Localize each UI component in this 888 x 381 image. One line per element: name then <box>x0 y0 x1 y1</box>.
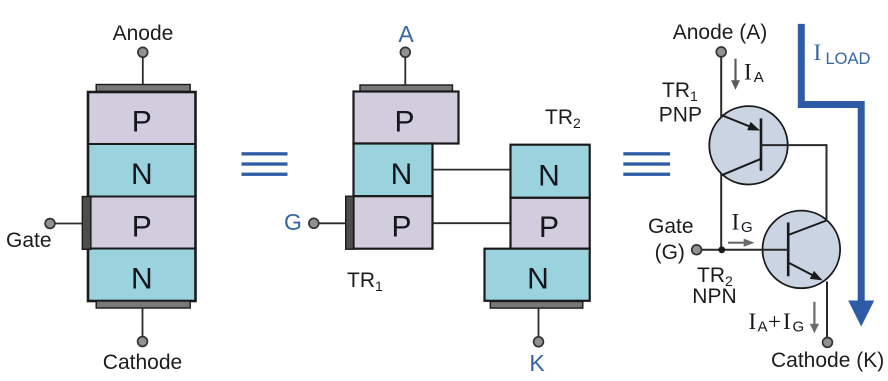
svg-text:N: N <box>131 263 153 296</box>
TR1 P region (emitter) <box>354 92 459 144</box>
current arrow IG head <box>744 239 755 247</box>
load current line ILOAD <box>801 24 861 303</box>
svg-text:K: K <box>529 350 545 376</box>
TR1 P region (collector/gate) <box>354 196 433 249</box>
svg-text:Cathode (K): Cathode (K) <box>771 349 884 372</box>
N region (cathode) <box>88 249 196 302</box>
junction gate node <box>718 246 725 253</box>
outer border of stack <box>88 92 196 301</box>
svg-text:Gate: Gate <box>6 229 52 252</box>
svg-text:P: P <box>539 211 559 244</box>
TR2 P region (base) <box>511 198 590 249</box>
cathode contact bar TR2 <box>490 302 583 309</box>
current arrow IA head <box>731 80 740 89</box>
gate contact bar <box>82 197 91 250</box>
N region <box>88 144 196 197</box>
svg-text:G: G <box>284 209 302 235</box>
svg-text:Cathode: Cathode <box>103 351 182 374</box>
wire anode to TR1 emitter <box>720 57 722 117</box>
TR1 base bar <box>760 118 763 170</box>
svg-text:Gate: Gate <box>648 215 694 238</box>
TR1 N region (base) <box>354 144 433 197</box>
svg-text:P: P <box>394 106 414 139</box>
TR2 base bar <box>787 223 790 277</box>
load current arrowhead <box>848 301 874 327</box>
svg-text:G: G <box>793 318 805 335</box>
svg-text:I: I <box>744 60 752 85</box>
P region (gate) <box>88 197 196 249</box>
svg-text:NPN: NPN <box>692 285 736 308</box>
wire gate to TR2 base <box>702 249 788 251</box>
equivalence symbol 2 <box>623 152 670 176</box>
anode terminal <box>716 47 726 57</box>
svg-text:N: N <box>131 158 153 191</box>
current arrow IG shaft <box>728 242 745 244</box>
wire TR1 base to right rail <box>761 144 827 146</box>
wire G lead <box>319 222 346 224</box>
wire right rail down to TR2 collector <box>826 144 828 221</box>
anode terminal (A) <box>400 47 410 57</box>
svg-text:N: N <box>391 158 413 191</box>
svg-text:PNP: PNP <box>659 104 702 127</box>
svg-text:I: I <box>732 209 740 234</box>
svg-text:N: N <box>538 160 560 193</box>
wire anode lead <box>142 58 144 86</box>
anode terminal <box>138 47 148 57</box>
svg-text:P: P <box>132 106 152 139</box>
gate contact bar TR1 <box>346 196 354 249</box>
transistor Q1 body (TR1 PNP) <box>709 106 787 184</box>
transistor Q2 body (TR2 NPN) <box>763 211 841 289</box>
gate terminal (G) <box>309 218 319 228</box>
wire P-P connection <box>433 222 511 224</box>
svg-text:+: + <box>768 309 781 334</box>
svg-text:LOAD: LOAD <box>826 50 871 68</box>
TR2 collector lead <box>788 221 826 236</box>
TR1 emitter lead with PNP arrow <box>721 115 753 128</box>
wire cathode lead <box>142 308 144 337</box>
TR2 N region (emitter) <box>485 249 590 301</box>
anode contact bar <box>96 85 190 92</box>
wire N-N connection <box>433 169 511 171</box>
svg-text:I: I <box>783 309 791 334</box>
svg-text:Anode (A): Anode (A) <box>673 21 768 44</box>
cathode terminal (K) <box>534 337 544 347</box>
equivalence symbol 1 <box>242 152 288 176</box>
svg-text:P: P <box>132 211 152 244</box>
gate terminal <box>45 219 55 229</box>
TR2 emitter lead with NPN arrow <box>788 263 813 276</box>
cathode terminal <box>823 338 833 348</box>
TR2 emitter arrowhead <box>810 271 823 281</box>
wire A lead <box>404 58 406 86</box>
svg-text:A: A <box>758 318 768 335</box>
TR2 N region (collector) <box>511 145 590 198</box>
svg-text:A: A <box>398 21 414 47</box>
wire K lead <box>538 308 540 337</box>
svg-text:I: I <box>749 309 757 334</box>
current arrow IA+IG shaft <box>813 302 815 325</box>
TR1 collector lead <box>721 159 761 176</box>
svg-text:G: G <box>741 219 753 236</box>
cathode terminal <box>138 337 148 347</box>
TR1 anode contact bar <box>360 85 453 92</box>
current arrow IA shaft <box>734 59 736 82</box>
svg-text:I: I <box>814 40 822 65</box>
wire TR2 emitter to cathode <box>826 282 828 338</box>
svg-text:N: N <box>527 263 549 296</box>
svg-text:(G): (G) <box>655 241 685 264</box>
TR1 emitter arrowhead <box>747 122 760 131</box>
wire gate lead <box>55 223 82 225</box>
svg-text:P: P <box>391 211 411 244</box>
svg-text:Anode: Anode <box>113 22 174 45</box>
wire TR1 collector to gate junction <box>720 174 722 250</box>
P region (anode) <box>88 92 196 144</box>
cathode contact bar <box>96 301 190 308</box>
gate terminal <box>692 245 702 255</box>
current arrow IA+IG head <box>810 324 819 334</box>
svg-text:A: A <box>754 69 764 86</box>
